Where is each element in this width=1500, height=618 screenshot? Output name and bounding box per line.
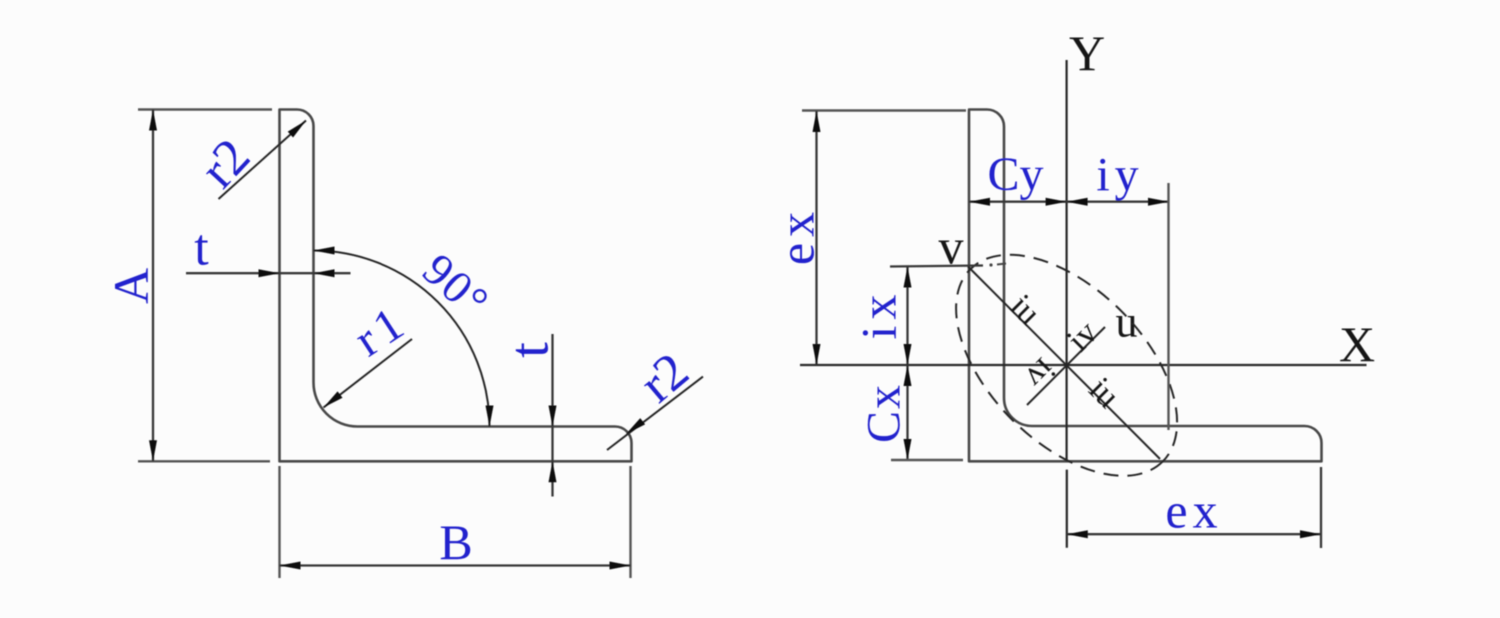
dimension A line bbox=[152, 110, 154, 462]
dimension A extension line top bbox=[138, 108, 272, 110]
ex (left) dimension line bbox=[815, 111, 817, 365]
svg-text:r1: r1 bbox=[345, 294, 417, 367]
svg-text:Y: Y bbox=[1069, 25, 1105, 81]
leader r1 bbox=[324, 339, 413, 408]
svg-text:ex: ex bbox=[769, 206, 825, 265]
dimension B line bbox=[280, 564, 631, 566]
Cy/iy dimension line bbox=[969, 201, 1169, 203]
svg-text:iu: iu bbox=[1082, 371, 1127, 416]
svg-text:iy: iy bbox=[1096, 149, 1143, 202]
svg-text:Cx: Cx bbox=[858, 383, 911, 443]
dimension B extension line left bbox=[278, 466, 280, 578]
svg-text:90°: 90° bbox=[413, 243, 499, 328]
svg-text:u: u bbox=[1116, 298, 1138, 347]
svg-text:B: B bbox=[439, 514, 472, 570]
leader r2 (top) bbox=[219, 121, 307, 200]
dimension t (top) line bbox=[186, 272, 351, 274]
ix/Cx dimension line bbox=[906, 267, 908, 461]
dimension A extension line bottom bbox=[138, 460, 270, 462]
svg-text:X: X bbox=[1339, 316, 1375, 372]
iy extension line bbox=[1167, 183, 1169, 430]
ex (left) extension line top bbox=[802, 109, 966, 111]
svg-text:ex: ex bbox=[1165, 483, 1222, 539]
svg-text:r2: r2 bbox=[630, 342, 700, 414]
svg-text:A: A bbox=[103, 268, 159, 304]
angle profile outline (right) bbox=[969, 110, 1322, 462]
svg-text:ix: ix bbox=[851, 289, 907, 340]
dimension B extension line right bbox=[629, 466, 631, 578]
dimension t (right vertical) line bbox=[551, 334, 553, 497]
Y axis bbox=[1065, 60, 1067, 462]
ex (bottom) right extension line bbox=[1320, 467, 1322, 548]
X axis bbox=[800, 364, 1367, 366]
v extension line bbox=[890, 266, 983, 267]
inertia ellipse (dashed) bbox=[916, 215, 1217, 516]
90 degree arc bbox=[314, 251, 490, 427]
ex (bottom) Y extension line bbox=[1066, 470, 1068, 548]
ex (bottom) dimension line bbox=[1067, 533, 1321, 535]
leader r2 (bottom right) bbox=[607, 377, 703, 450]
Cx bottom extension line bbox=[891, 459, 963, 461]
angle profile outline bbox=[280, 110, 632, 462]
svg-text:iu: iu bbox=[1003, 288, 1048, 333]
v axis diagonal bbox=[968, 267, 1160, 460]
svg-text:Cy: Cy bbox=[987, 148, 1043, 201]
svg-text:r2: r2 bbox=[190, 128, 261, 199]
svg-text:t: t bbox=[194, 220, 209, 277]
u axis segment bbox=[1027, 327, 1105, 405]
svg-text:iv: iv bbox=[1018, 351, 1063, 396]
svg-text:t: t bbox=[499, 342, 561, 358]
